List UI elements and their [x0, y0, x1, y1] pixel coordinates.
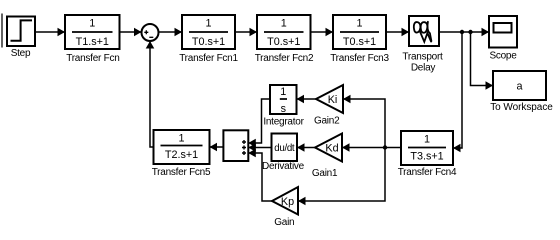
svg-text:du/dt: du/dt [274, 143, 295, 154]
svg-text:Transfer Fcn4: Transfer Fcn4 [398, 167, 457, 178]
svg-text:Transport: Transport [402, 52, 443, 63]
svg-text:T1.s+1: T1.s+1 [76, 36, 109, 48]
svg-text:T0.s+1: T0.s+1 [343, 36, 376, 48]
svg-text:Transfer Fcn: Transfer Fcn [66, 53, 119, 64]
svg-text:Transfer Fcn2: Transfer Fcn2 [255, 53, 314, 64]
svg-text:1: 1 [280, 86, 286, 98]
svg-text:Derivative: Derivative [262, 161, 305, 172]
svg-text:Gain: Gain [274, 217, 294, 228]
svg-text:T0.s+1: T0.s+1 [267, 36, 300, 48]
svg-text:a: a [516, 81, 522, 93]
svg-text:Delay: Delay [411, 63, 436, 74]
svg-text:s: s [281, 103, 287, 115]
svg-text:Ki: Ki [328, 94, 338, 106]
svg-text:1: 1 [281, 17, 287, 29]
svg-text:T0.s+1: T0.s+1 [192, 36, 225, 48]
svg-text:Transfer Fcn1: Transfer Fcn1 [179, 53, 238, 64]
svg-text:Transfer Fcn5: Transfer Fcn5 [152, 167, 211, 178]
svg-text:1: 1 [178, 133, 184, 145]
svg-text:Integrator: Integrator [263, 117, 304, 128]
svg-text:Kp: Kp [281, 196, 294, 208]
svg-text:T2.s+1: T2.s+1 [165, 149, 198, 161]
svg-text:Step: Step [11, 48, 31, 59]
svg-text:Gain2: Gain2 [314, 116, 340, 127]
svg-text:To Workspace: To Workspace [490, 102, 553, 113]
svg-text:Gain1: Gain1 [312, 168, 338, 179]
svg-text:1: 1 [356, 17, 362, 29]
svg-text:Scope: Scope [489, 51, 517, 62]
svg-text:Transfer Fcn3: Transfer Fcn3 [330, 53, 389, 64]
svg-text:T3.s+1: T3.s+1 [410, 151, 443, 163]
svg-text:Kd: Kd [325, 143, 338, 155]
svg-text:1: 1 [89, 17, 95, 29]
svg-text:1: 1 [424, 134, 430, 146]
svg-text:1: 1 [205, 17, 211, 29]
